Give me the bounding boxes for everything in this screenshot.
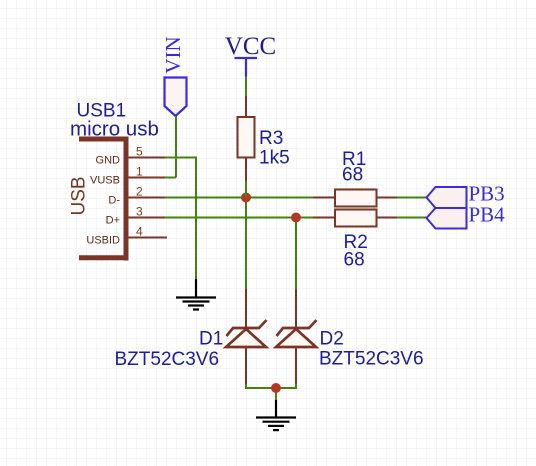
svg-text:2: 2 [136, 185, 143, 199]
ground symbol 1 [176, 279, 216, 310]
wire D+ net [165, 217, 313, 219]
diode D1 (zener) [226, 289, 267, 386]
svg-text:D+: D+ [106, 215, 120, 227]
svg-text:R3: R3 [259, 128, 283, 149]
wire R3 to D- net [245, 181, 247, 198]
diode D2 (zener) [276, 289, 317, 386]
VCC bar symbol [235, 58, 258, 77]
svg-text:VCC: VCC [225, 33, 276, 60]
svg-text:BZT52C3V6: BZT52C3V6 [115, 349, 220, 370]
svg-text:PB4: PB4 [469, 203, 506, 227]
pin 1 VUSB [129, 177, 168, 179]
svg-text:1k5: 1k5 [259, 148, 290, 169]
net flag PB4 [427, 208, 467, 229]
wire R3 stem over junction [245, 192, 247, 198]
svg-text:1: 1 [136, 165, 143, 179]
wire D- to D1 [245, 198, 247, 290]
svg-text:3: 3 [136, 205, 143, 219]
svg-text:BZT52C3V6: BZT52C3V6 [319, 348, 424, 369]
svg-text:D1: D1 [199, 329, 223, 350]
svg-text:VUSB: VUSB [90, 175, 120, 187]
svg-text:micro usb: micro usb [70, 118, 159, 141]
wire R1 to PB3 [397, 197, 427, 199]
svg-text:5: 5 [136, 145, 143, 159]
wire R2 to PB4 [397, 217, 427, 219]
resistor R1 [313, 190, 397, 207]
wire D+ to D2 [295, 218, 297, 290]
wire D1/D2 anodes to ground [246, 384, 296, 400]
resistor R3 [238, 96, 255, 181]
pin 5 GND [129, 157, 168, 159]
wire VIN to pin1 [165, 116, 176, 178]
svg-text:USBID: USBID [86, 235, 120, 247]
pin 3 D+ [129, 217, 168, 219]
svg-text:D-: D- [108, 195, 120, 207]
wire VCC to R3 [245, 77, 247, 97]
svg-text:GND: GND [96, 155, 121, 167]
resistor R2 [313, 210, 397, 227]
svg-text:USB: USB [69, 176, 90, 215]
svg-text:68: 68 [342, 164, 363, 185]
pin 4 USBID [129, 237, 168, 239]
svg-text:68: 68 [344, 250, 365, 271]
svg-text:D2: D2 [320, 329, 344, 350]
wire D- net [165, 197, 313, 199]
pin 2 D- [129, 197, 168, 199]
junction D+/D2 [291, 213, 301, 223]
connector USB1 body [79, 137, 126, 261]
net flag PB3 [427, 187, 467, 208]
junction D-/R3/D1 [241, 193, 251, 203]
net flag VIN [165, 78, 187, 117]
svg-text:4: 4 [136, 225, 143, 239]
wire GND pin5 to ground [165, 158, 196, 280]
ground symbol 2 [256, 400, 296, 430]
svg-text:VIN: VIN [161, 36, 185, 73]
junction ground node [271, 383, 281, 393]
